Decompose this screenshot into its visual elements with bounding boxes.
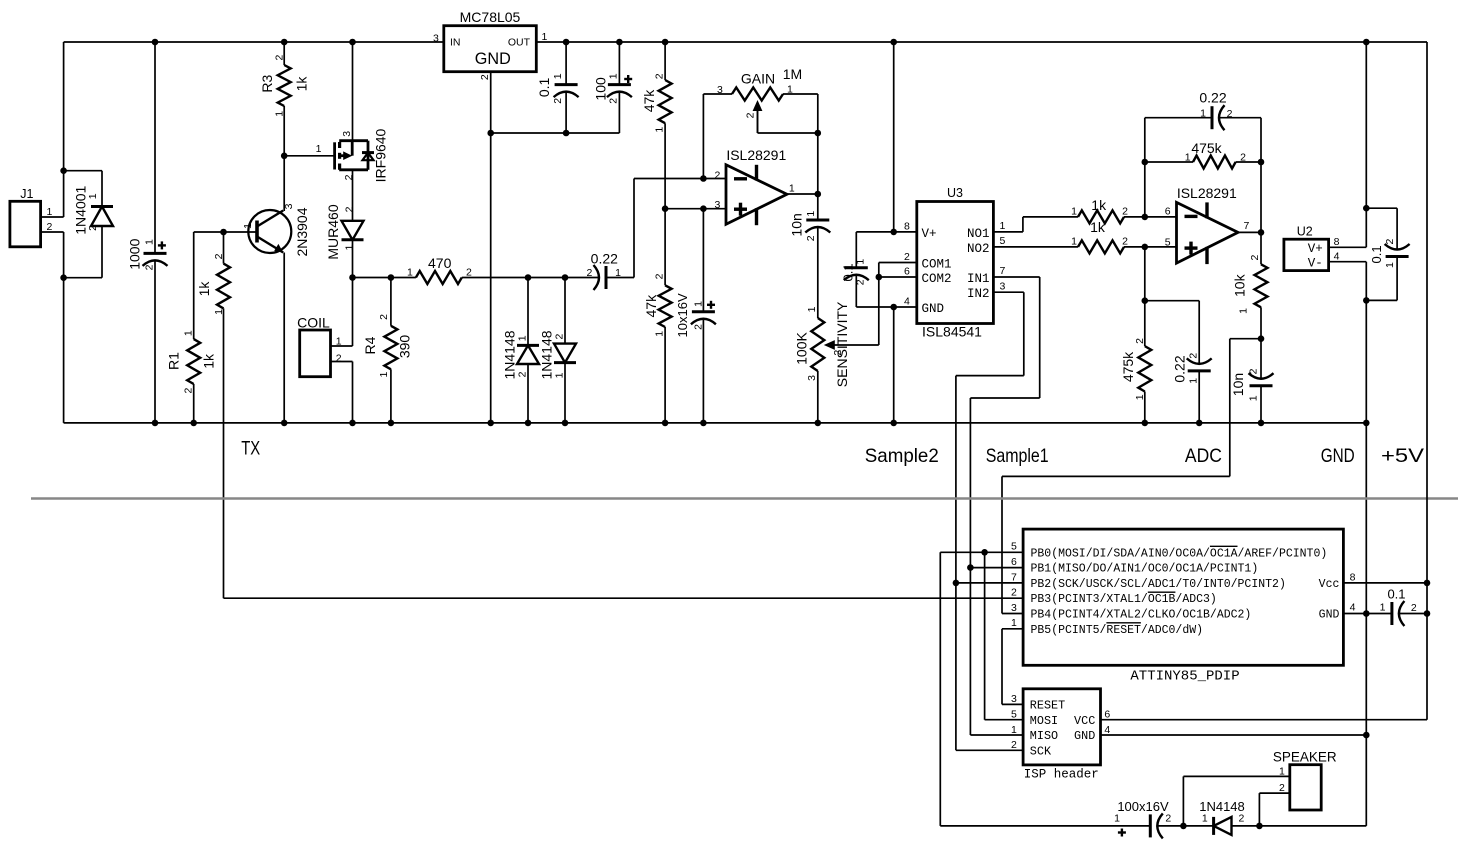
wire J1 pin 2: [41, 231, 64, 233]
svg-text:SENSITIVITY: SENSITIVITY: [834, 301, 850, 387]
node ISP gnd on GND column: [1363, 732, 1370, 739]
svg-text:SPEAKER: SPEAKER: [1273, 750, 1337, 765]
svg-text:GND: GND: [475, 50, 511, 68]
svg-text:2: 2: [552, 98, 564, 104]
wire wiper up to COM node: [878, 263, 880, 346]
wire 1N4001 anode return: [64, 277, 102, 279]
svg-text:2: 2: [479, 74, 491, 80]
node 10x16V on ground rail: [700, 420, 707, 427]
svg-text:2: 2: [832, 350, 844, 356]
svg-text:1: 1: [182, 330, 194, 336]
svg-text:R3: R3: [259, 75, 275, 93]
node 1000 cap on ground rail: [152, 420, 159, 427]
node 475k right: [1258, 159, 1265, 166]
svg-text:1: 1: [407, 267, 413, 279]
svg-text:2: 2: [1247, 368, 1259, 374]
wire 2N3904 emitter down to ground rail: [283, 253, 285, 423]
node gnd link at 0.1 cap: [563, 130, 570, 137]
node + input of U4: [1142, 244, 1149, 251]
wire +5V column upper: [1365, 42, 1367, 247]
component COIL search coil: [300, 330, 331, 377]
capacitor 1000 electrolytic: [154, 42, 156, 253]
wire speaker bottom row: [940, 825, 1150, 827]
wire feedback vertical up to - input: [633, 179, 635, 278]
svg-text:1: 1: [1380, 602, 1386, 614]
svg-text:1k: 1k: [293, 76, 309, 92]
node 1000 cap on top rail: [152, 39, 159, 46]
node base / R1 / 1k junction: [220, 229, 227, 236]
node speaker pin2 junction: [1256, 823, 1263, 830]
node PB0 / MOSI junction: [981, 549, 988, 556]
svg-text:1: 1: [242, 223, 254, 229]
svg-text:1N4148: 1N4148: [539, 330, 555, 379]
wire GND column: [1365, 262, 1367, 826]
node divider mid at op-amp + row: [662, 205, 669, 212]
svg-text:1: 1: [789, 182, 795, 194]
svg-text:10n: 10n: [789, 213, 805, 236]
svg-text:R4: R4: [362, 336, 378, 354]
svg-text:475k: 475k: [1191, 140, 1222, 156]
node U3 gnd junction: [890, 304, 897, 311]
svg-text:PB0(MOSI/DI/SDA/AIN0/OC0A/OC1A: PB0(MOSI/DI/SDA/AIN0/OC0A/OC1A/AREF/PCIN…: [1031, 547, 1328, 560]
IRF9640 body diode: [362, 151, 374, 154]
svg-text:SCK: SCK: [1030, 744, 1052, 758]
wire MUR460 cathode to node row: [352, 240, 354, 278]
MCU ATTINY85_PDIP: [1023, 529, 1343, 665]
svg-text:2: 2: [692, 324, 704, 330]
node GND column on ground rail: [1363, 420, 1370, 427]
node GAIN wiper/pin1 tie: [815, 130, 822, 137]
svg-text:4: 4: [1104, 724, 1110, 736]
svg-text:4: 4: [1350, 602, 1356, 614]
node R4 top junction: [388, 274, 395, 281]
node + network top: [1142, 297, 1149, 304]
svg-text:2: 2: [586, 267, 592, 279]
diode 1N4148 speaker clamp: [1212, 817, 1215, 835]
wire 1k to - node: [1124, 216, 1177, 218]
svg-text:1: 1: [343, 245, 355, 251]
svg-text:10n: 10n: [1230, 373, 1246, 396]
node COM1/COM2 tie: [876, 274, 883, 281]
capacitor 0.1 U3 decoupling: [855, 232, 857, 268]
potentiometer 100K SENSITIVITY: [811, 318, 824, 371]
wire COM1 jog: [879, 262, 917, 264]
svg-text:5: 5: [1011, 541, 1017, 553]
wire Sample2 vertical: [955, 376, 957, 751]
svg-text:6: 6: [1011, 556, 1017, 568]
wire PB5 row: [1002, 628, 1023, 630]
wire 2N3904 base row: [194, 231, 257, 233]
transistor Q2 IRF9640 P-MOSFET: [352, 42, 354, 141]
resistor 47k upper bias divider: [664, 42, 666, 80]
node 100 cap on +5V rail: [616, 39, 623, 46]
wire PB3 row to TX: [224, 597, 1024, 599]
resistor 10k output: [1255, 264, 1268, 307]
wire U3 GND row: [856, 306, 917, 308]
wire + input row of U1 op-amp: [665, 208, 726, 210]
wire 47k divider middle: [664, 123, 666, 285]
wire U2 cap bottom jog: [1366, 299, 1397, 301]
svg-text:1: 1: [607, 73, 619, 79]
svg-text:1: 1: [1071, 206, 1077, 218]
svg-text:V-: V-: [1308, 256, 1323, 270]
svg-text:6: 6: [1165, 206, 1171, 218]
svg-text:ISP header: ISP header: [1024, 767, 1099, 781]
wire GND pin row: [1343, 613, 1392, 615]
op-amp U1 ISL28291 first stage: [726, 165, 787, 224]
wire IRF9640 drain down to MUR460: [352, 170, 354, 221]
svg-text:1: 1: [1071, 236, 1077, 248]
resistor 1k to + input: [1078, 240, 1124, 253]
svg-text:GND: GND: [1321, 445, 1355, 467]
capacitor 100x16V speaker coupling: [1149, 814, 1152, 837]
svg-text:2: 2: [144, 264, 156, 270]
svg-text:J1: J1: [20, 187, 33, 201]
node junction at left rail / 1N4001 bottom: [60, 274, 67, 281]
wire COM2 row: [879, 276, 917, 278]
potentiometer GAIN 1M: [703, 93, 732, 95]
svg-text:1: 1: [692, 301, 704, 307]
top +5V power rail wire: [64, 41, 444, 43]
svg-text:6: 6: [1104, 708, 1110, 720]
wire PB0 speaker vertical: [939, 552, 941, 826]
svg-text:1N4001: 1N4001: [72, 185, 88, 234]
svg-text:2: 2: [274, 55, 286, 61]
svg-text:7: 7: [1011, 571, 1017, 583]
svg-text:1: 1: [1384, 262, 1396, 268]
svg-text:1: 1: [1247, 395, 1259, 401]
svg-text:1: 1: [854, 259, 866, 265]
capacitor 0.22 to ground: [1198, 301, 1200, 364]
svg-text:0.1: 0.1: [1387, 587, 1405, 602]
svg-text:2: 2: [1279, 782, 1285, 794]
svg-text:3: 3: [433, 32, 439, 44]
svg-text:1: 1: [1187, 378, 1199, 384]
capacitor 0.22 input coupling: [605, 266, 608, 289]
node R4 on ground rail: [388, 420, 395, 427]
node junction at left rail / 1N4001 top: [60, 167, 67, 174]
svg-text:1: 1: [316, 143, 322, 155]
svg-text:2: 2: [1187, 353, 1199, 359]
svg-text:0.22: 0.22: [591, 250, 618, 266]
resistor 475k to ground: [1144, 301, 1146, 346]
svg-text:1000: 1000: [127, 238, 143, 269]
svg-text:0.1: 0.1: [536, 77, 552, 97]
wire IN2 jog right: [993, 291, 1023, 293]
svg-text:10k: 10k: [1232, 273, 1248, 297]
node clamp B top: [562, 274, 569, 281]
wire + network top row: [1145, 300, 1199, 302]
svg-text:1: 1: [552, 73, 564, 79]
node U4 output: [1258, 229, 1265, 236]
svg-text:0.1: 0.1: [840, 263, 855, 281]
wire 2N3904 collector up to gate row: [283, 156, 285, 211]
svg-text:100K: 100K: [793, 331, 809, 364]
wire ISP VCC row: [1101, 719, 1428, 721]
svg-text:Sample1: Sample1: [986, 445, 1049, 467]
svg-text:1: 1: [274, 111, 286, 117]
resistor 475k feedback: [1193, 156, 1236, 169]
wire NO2 row: [993, 246, 1078, 248]
svg-text:2: 2: [182, 388, 194, 394]
svg-text:3: 3: [806, 375, 818, 381]
node coil pin2 on ground rail: [349, 420, 356, 427]
resistor 1k to - input: [1078, 210, 1124, 223]
svg-text:V+: V+: [1308, 242, 1323, 256]
resistor R1 1k base pulldown: [193, 232, 195, 339]
analog switch U3 ISL84541: [917, 202, 994, 324]
node 0.1 cap on +5V rail: [563, 39, 570, 46]
wire J1 pin 2 down to ground rail: [63, 232, 65, 423]
wire NO1 jog: [993, 231, 1023, 233]
svg-text:GND: GND: [922, 302, 945, 316]
svg-text:1: 1: [1114, 813, 1120, 825]
svg-text:IN: IN: [450, 37, 461, 49]
wire ADC horizontal: [1002, 475, 1230, 477]
svg-text:PB4(PCINT4/XTAL2/CLKO/OC1B/ADC: PB4(PCINT4/XTAL2/CLKO/OC1B/ADC2): [1031, 609, 1252, 622]
wire 10x16V cap drop: [702, 209, 704, 312]
resistor R4 390: [390, 278, 392, 326]
node Vcc on +5V column: [1424, 580, 1431, 587]
wire diode to GND column: [1232, 825, 1367, 827]
svg-text:1: 1: [336, 336, 342, 348]
wire MC78L05 GND pin down to ground rail: [490, 72, 492, 423]
wire PB5 to ISP RESET: [1001, 629, 1003, 705]
svg-text:1: 1: [1185, 151, 1191, 163]
svg-text:475k: 475k: [1120, 351, 1136, 382]
svg-text:390: 390: [397, 335, 413, 359]
svg-text:OUT: OUT: [508, 37, 531, 49]
svg-text:47k: 47k: [643, 294, 659, 318]
node U3 gnd on ground rail: [890, 420, 897, 427]
capacitor 0.1 ATtiny decoupling: [1390, 602, 1393, 625]
node sensitivity pot on ground rail: [815, 420, 822, 427]
diode 1N4148 clamp B: [564, 278, 566, 344]
wire to 1N4001 cathode: [64, 170, 102, 172]
transistor Q1 2N3904: [248, 210, 291, 253]
svg-text:2: 2: [1165, 813, 1171, 825]
capacitor 10x16V electrolytic: [692, 310, 715, 313]
wire feedback left vertical: [1144, 118, 1146, 217]
diode 1N4001 reverse-protection: [101, 171, 103, 207]
svg-text:TX: TX: [241, 437, 260, 459]
svg-text:2: 2: [1384, 239, 1396, 245]
svg-text:1: 1: [654, 331, 666, 337]
wire op-amp U1 output: [787, 193, 818, 195]
node R1 on ground rail: [190, 420, 197, 427]
wire U2 V+ row: [1329, 246, 1367, 248]
svg-text:100: 100: [593, 77, 609, 101]
svg-text:3: 3: [1011, 693, 1017, 705]
node R3 on top rail: [281, 39, 288, 46]
svg-text:VCC: VCC: [1074, 714, 1095, 728]
capacitor 10n coupling to detector: [817, 194, 819, 220]
svg-text:2: 2: [554, 334, 566, 340]
svg-text:1: 1: [1000, 220, 1006, 232]
wire + network drop: [1144, 247, 1146, 301]
wire MOSI vertical: [984, 552, 986, 719]
node +5V column on top rail: [1363, 39, 1370, 46]
svg-text:8: 8: [904, 221, 910, 233]
wire IN1 jog right: [993, 276, 1039, 278]
node 10n on ground rail: [1258, 420, 1265, 427]
svg-text:2: 2: [1411, 602, 1417, 614]
svg-text:NO2: NO2: [967, 242, 990, 256]
svg-text:47k: 47k: [641, 89, 657, 113]
wire PB0 row: [940, 551, 1023, 553]
svg-text:3: 3: [715, 199, 721, 211]
node IRF9640 source pin on top rail: [349, 39, 356, 46]
svg-text:COM2: COM2: [922, 272, 952, 286]
component SPEAKER: [1290, 765, 1321, 810]
wire ADC vertical to PB4: [1001, 476, 1003, 613]
svg-text:COM1: COM1: [922, 257, 952, 271]
svg-text:PB1(MISO/DO/AIN1/OC0/OC1A/PCIN: PB1(MISO/DO/AIN1/OC0/OC1A/PCINT1): [1031, 563, 1259, 576]
node PB1 / MISO junction: [967, 564, 974, 571]
svg-text:2: 2: [904, 251, 910, 263]
svg-text:PB5(PCINT5/RESET/ADC0/dW): PB5(PCINT5/RESET/ADC0/dW): [1031, 624, 1204, 637]
svg-text:3: 3: [717, 84, 723, 96]
wire PB2 row: [956, 582, 1023, 584]
svg-text:Vcc: Vcc: [1319, 578, 1340, 591]
svg-text:GND: GND: [1319, 609, 1340, 622]
svg-text:7: 7: [1000, 265, 1006, 277]
svg-text:2: 2: [1227, 108, 1233, 120]
wire +5V right column: [1426, 42, 1428, 720]
capacitor 0.1 U2 decoupling: [1386, 255, 1409, 258]
node clamp A top: [525, 274, 532, 281]
wire feedback top row to 0.22: [1145, 117, 1211, 119]
node MC78L05 gnd on ground rail: [487, 420, 494, 427]
node 47k on +5V rail: [662, 39, 669, 46]
svg-text:1: 1: [1011, 724, 1017, 736]
svg-text:1: 1: [654, 127, 666, 133]
node clamp B on ground rail: [562, 420, 569, 427]
node attiny gnd junction: [1363, 610, 1370, 617]
svg-text:0.1: 0.1: [1369, 245, 1384, 263]
resistor R3 1k: [283, 42, 285, 65]
svg-text:1k: 1k: [1090, 219, 1106, 235]
wire MISO row: [970, 734, 1023, 736]
svg-text:PB2(SCK/USCK/SCL/ADC1/T0/INT0/: PB2(SCK/USCK/SCL/ADC1/T0/INT0/PCINT2): [1031, 578, 1286, 591]
wire left vertical from rail to J1 pin 1: [63, 42, 65, 217]
node 475k left: [1142, 159, 1149, 166]
wire V+ drop from top rail to U3: [893, 42, 895, 232]
wire GAIN wiper to pin1 column: [758, 132, 818, 134]
svg-text:2: 2: [654, 273, 666, 279]
svg-text:NO1: NO1: [967, 227, 990, 241]
wire speaker pin2: [1259, 792, 1289, 794]
resistor 470 damping: [416, 271, 462, 284]
svg-text:4: 4: [904, 296, 910, 308]
svg-text:5: 5: [1011, 708, 1017, 720]
svg-text:2: 2: [343, 174, 355, 180]
svg-text:1: 1: [1238, 308, 1250, 314]
svg-text:2: 2: [1249, 255, 1261, 261]
svg-text:8: 8: [1334, 236, 1340, 248]
component U2 reference: [1284, 239, 1329, 270]
svg-text:U2: U2: [1297, 224, 1313, 238]
svg-text:ATTINY85_PDIP: ATTINY85_PDIP: [1130, 668, 1239, 684]
svg-text:Sample2: Sample2: [865, 445, 939, 467]
svg-text:2: 2: [1134, 338, 1146, 344]
svg-text:1M: 1M: [783, 66, 802, 82]
wire output column of U4: [1260, 118, 1262, 265]
svg-text:U3: U3: [947, 186, 963, 200]
node gnd link at pin2: [487, 130, 494, 137]
wire SCK row: [956, 749, 1023, 751]
resistor 1k TX series: [223, 232, 225, 264]
svg-text:+5V: +5V: [1381, 445, 1424, 467]
node lower 47k on ground rail: [662, 420, 669, 427]
svg-text:7: 7: [1244, 220, 1250, 232]
wire J1 pin 1: [41, 216, 64, 218]
svg-text:GAIN: GAIN: [741, 70, 775, 86]
svg-text:ADC: ADC: [1185, 445, 1222, 467]
node - input / GAIN pot pin3: [700, 175, 707, 182]
svg-text:2: 2: [654, 73, 666, 79]
svg-text:ISL28291: ISL28291: [726, 147, 786, 163]
wire coil pin2 to ground rail: [331, 361, 353, 363]
top +5V power rail wire right of regulator: [536, 41, 1427, 43]
resistor 47k lower bias divider: [659, 285, 672, 327]
svg-text:1N4148: 1N4148: [502, 330, 518, 379]
svg-text:ISL84541: ISL84541: [922, 323, 982, 339]
node PB2 / SCK junction: [953, 580, 960, 587]
svg-text:1: 1: [1011, 617, 1017, 629]
wire gate row R3 to IRF9640 gate: [284, 155, 334, 157]
node U3 V+ junction: [890, 229, 897, 236]
wire GAIN pin1: [783, 93, 818, 95]
connector J1: [10, 201, 41, 247]
op-amp U4 ISL28291 second stage: [1177, 202, 1239, 263]
svg-text:1k: 1k: [200, 353, 216, 369]
regulator U1 MC78L05: [444, 26, 537, 72]
diode 1N4148 clamp A: [527, 278, 529, 346]
svg-text:2: 2: [378, 314, 390, 320]
svg-text:100x16V: 100x16V: [1117, 799, 1169, 814]
svg-text:1: 1: [517, 335, 529, 341]
svg-text:1: 1: [1134, 394, 1146, 400]
svg-text:1: 1: [87, 193, 99, 199]
svg-text:GND: GND: [1074, 729, 1095, 743]
wire 1k to + node: [1124, 246, 1177, 248]
svg-text:1k: 1k: [196, 281, 212, 297]
diode MUR460 flyback: [342, 221, 364, 240]
svg-text:1k: 1k: [1091, 197, 1107, 213]
wire ADC jog: [1230, 338, 1261, 340]
wire U3 V+ row: [856, 231, 917, 233]
wire 475k feedback row: [1145, 161, 1193, 163]
svg-text:5: 5: [1165, 237, 1171, 249]
svg-text:2: 2: [1011, 587, 1017, 599]
svg-text:2: 2: [745, 112, 757, 118]
svg-text:2N3904: 2N3904: [294, 207, 310, 256]
svg-text:2: 2: [854, 279, 866, 285]
wire PB4 row: [1002, 613, 1023, 615]
svg-text:ISL28291: ISL28291: [1177, 185, 1237, 201]
svg-text:1: 1: [805, 211, 817, 217]
node speaker pin1 junction: [1180, 823, 1187, 830]
svg-text:3: 3: [341, 131, 353, 137]
capacitor 100 electrolytic filter: [618, 42, 620, 85]
svg-text:IN2: IN2: [967, 287, 990, 301]
svg-text:5: 5: [1000, 235, 1006, 247]
wire Vcc row to +5V: [1343, 582, 1427, 584]
ground rail wire: [64, 422, 1367, 424]
svg-text:2: 2: [715, 169, 721, 181]
node ADC tap: [1258, 335, 1265, 342]
